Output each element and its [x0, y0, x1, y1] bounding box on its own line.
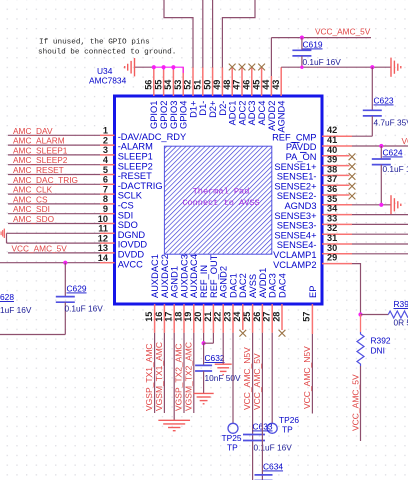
ground (left, DGND)	[1, 229, 4, 238]
pin 40 number	[327, 145, 337, 155]
svg-text:2: 2	[103, 135, 108, 145]
svg-text:EP: EP	[308, 286, 318, 298]
net label VCC_AMC_5V (pin 13)	[12, 243, 68, 253]
pin 16 label AUXDAC2	[160, 254, 170, 298]
svg-text:C629: C629	[67, 284, 87, 294]
value C633 0.1uF 16V	[254, 443, 293, 453]
pin 49 stub (top)	[221, 67, 223, 96]
svg-text:VGSP_TX2_AMC: VGSP_TX2_AMC	[174, 343, 184, 411]
pin 28 stub (bottom)	[281, 304, 283, 330]
svg-text:34: 34	[327, 204, 338, 214]
svg-text:55: 55	[153, 80, 163, 90]
label TP26 TP	[282, 425, 293, 435]
svg-text:SENSE3+: SENSE3+	[274, 211, 316, 221]
svg-text:-DACTRIG: -DACTRIG	[118, 181, 163, 191]
svg-text:38: 38	[327, 164, 337, 174]
ground (right, AGND3)	[391, 195, 401, 214]
pin 30 number	[327, 243, 337, 253]
svg-text:SENSE1+: SENSE1+	[274, 162, 316, 172]
svg-text:VCC_AMC_N5V: VCC_AMC_N5V	[302, 346, 312, 409]
svg-text:40: 40	[327, 145, 337, 155]
net label AMC_CS	[13, 194, 48, 204]
svg-text:24: 24	[232, 311, 242, 322]
svg-text:GPIO3: GPIO3	[169, 101, 179, 129]
net label VGSP_TX2_AMC	[174, 343, 184, 411]
pin 13 stub (left)	[100, 252, 115, 254]
svg-text:DAC4: DAC4	[277, 273, 287, 298]
wire GPIO ground bus (magenta)	[154, 67, 183, 73]
pin 18 number	[173, 312, 183, 322]
pin 17 stub (bottom)	[173, 304, 175, 333]
pin 9 stub (left)	[100, 213, 115, 215]
svg-text:32: 32	[327, 223, 337, 233]
svg-text:20: 20	[193, 312, 203, 322]
svg-text:1: 1	[103, 126, 108, 136]
svg-text:4: 4	[103, 155, 109, 165]
capacitor C619	[292, 38, 311, 68]
wire AVCC (pin 14)	[0, 262, 100, 264]
pin 31 number	[327, 233, 337, 243]
ground (bottom, AGND1)	[158, 420, 190, 430]
pin 21 label REF_OUT	[209, 254, 219, 298]
svg-text:VGSM_TX1_AMC: VGSM_TX1_AMC	[154, 342, 164, 411]
svg-text:D2-: D2-	[218, 101, 228, 116]
pin 20 label REF_IN	[199, 265, 209, 298]
pin 49 number	[212, 80, 222, 90]
pin 36 number	[327, 184, 337, 194]
no-connect X pin 37	[349, 183, 356, 190]
net label VCC_AMC_5V (top)	[315, 27, 371, 37]
wire to R393	[361, 314, 389, 316]
net label VGSM_TX2_AMC	[183, 342, 193, 411]
op-amp U34 chip body outline	[115, 96, 323, 304]
ground (AGND2)	[215, 364, 232, 374]
svg-text:0.1uF 16V: 0.1uF 16V	[65, 304, 104, 314]
junction AGND3 / C624	[379, 203, 383, 207]
wire AMC pin 4	[8, 164, 100, 166]
svg-text:TP26: TP26	[279, 415, 299, 425]
pin 44 label AVDD2	[267, 101, 277, 131]
pin 10 stub (left)	[100, 223, 115, 225]
pin 13 number	[98, 243, 108, 253]
svg-text:54: 54	[163, 79, 173, 90]
wire AUXDAC2 (pin 16)	[163, 333, 165, 413]
svg-text:VCC_AMC_5V: VCC_AMC_5V	[12, 243, 68, 253]
svg-text:3: 3	[103, 145, 108, 155]
svg-text:39: 39	[327, 155, 337, 165]
pin 4 label SLEEP2	[118, 161, 153, 171]
svg-text:0.1uF 16V: 0.1uF 16V	[254, 443, 293, 453]
junction GPIO2	[162, 65, 166, 69]
junction C619 bottom	[300, 66, 303, 69]
pin 7 stub (left)	[100, 193, 115, 195]
wire D2+ (pin 50)	[212, 0, 214, 68]
pin 43 label AGND4	[277, 101, 287, 133]
svg-text:53: 53	[173, 80, 183, 90]
pin 32 label SENSE4+	[274, 230, 316, 240]
svg-text:7: 7	[103, 184, 108, 194]
svg-text:30: 30	[327, 243, 337, 253]
wire AUXDAC3 (pin 18)	[183, 333, 185, 413]
pin 51 number	[193, 80, 203, 90]
label R393 (clipped)	[394, 299, 408, 309]
svg-text:DVDD: DVDD	[118, 250, 145, 260]
svg-text:C634: C634	[263, 462, 283, 472]
pin 42 stub (right)	[322, 135, 352, 137]
thermal pad hatched region	[164, 146, 271, 254]
svg-text:AGND2: AGND2	[219, 266, 229, 298]
pin 28 label DAC4	[277, 273, 287, 298]
pin 33 number	[327, 213, 337, 223]
pin 8 number	[103, 194, 108, 204]
pin 39 label SENSE1+	[274, 162, 316, 172]
thermal pad text	[182, 187, 259, 208]
net label AMC_ALARM	[13, 136, 65, 146]
wire C629 bottom to C628	[0, 334, 65, 336]
svg-text:51: 51	[193, 80, 203, 90]
svg-text:VGSP_TX1_AMC: VGSP_TX1_AMC	[144, 343, 154, 411]
svg-text:AMC_RESET: AMC_RESET	[13, 165, 64, 175]
wire REF_OUT (pin 21) jog	[204, 333, 214, 343]
no-connect X pin 28	[279, 330, 286, 337]
capacitor C633	[243, 435, 265, 441]
svg-text:23: 23	[222, 312, 232, 322]
wire DVDD (pin 13)	[8, 252, 100, 254]
pin 28 number	[271, 312, 281, 322]
label C624	[383, 148, 403, 158]
wire AMC pin 2	[8, 144, 100, 146]
pin 27 stub (bottom)	[271, 304, 273, 333]
svg-text:AUXDAC1: AUXDAC1	[150, 254, 160, 298]
junction C624 top	[379, 144, 383, 148]
pin 5 label -RESET	[118, 171, 152, 181]
pin 37 number	[327, 174, 337, 184]
pin 11 label DGND	[118, 230, 146, 240]
svg-text:45: 45	[251, 80, 261, 90]
pin 23 stub (bottom)	[232, 304, 234, 333]
value R392 DNI	[371, 346, 385, 356]
svg-text:DNI: DNI	[371, 346, 385, 356]
pin 9 label SDI	[118, 210, 134, 220]
no-connect X pin 46	[248, 64, 255, 71]
net label VCC_AMC_5V (PAVDD, clipped)	[402, 136, 408, 146]
svg-text:IOVDD: IOVDD	[118, 240, 148, 250]
pin 16 number	[154, 312, 164, 322]
testpoint TP25	[228, 423, 238, 433]
pin 1 label -DAV/ADC_RDY	[118, 132, 187, 142]
pin 38 label SENSE1-	[277, 172, 317, 182]
pin 46 label ADC3	[247, 101, 257, 126]
wire AMC pin 8	[8, 203, 100, 205]
svg-text:57: 57	[302, 312, 312, 322]
svg-text:36: 36	[327, 184, 337, 194]
pin 2 stub (left)	[100, 144, 115, 146]
svg-text:-ALARM: -ALARM	[118, 142, 153, 152]
pin 23 label DAC1	[228, 273, 238, 298]
svg-text:12: 12	[98, 233, 108, 243]
wire DAC3 (pin 27)	[271, 333, 273, 424]
pin 50 stub (top)	[212, 67, 214, 96]
pin 38 number	[327, 164, 337, 174]
pin 18 label AUXDAC3	[179, 254, 189, 298]
pin 1 stub (left)	[100, 134, 115, 136]
capacitor C629	[56, 263, 75, 335]
pin 55 stub (top)	[163, 67, 165, 96]
pin 26 label AVDD1	[258, 268, 268, 298]
pin 7 number	[103, 184, 108, 194]
pin 25 label AVSS	[248, 274, 258, 298]
pin 46 number	[242, 80, 252, 90]
pin 52 number	[183, 80, 193, 90]
label C619	[303, 40, 323, 50]
label C633	[253, 422, 273, 432]
resistor R393 (clipped)	[388, 311, 408, 318]
svg-text:AUXDAC2: AUXDAC2	[160, 254, 170, 298]
svg-text:41: 41	[327, 135, 337, 145]
pin 35 number	[327, 194, 337, 204]
wire C623 to REF_CMP	[352, 135, 372, 137]
pin 35 stub (right)	[322, 204, 352, 206]
pin 36 label SENSE2-	[277, 191, 317, 201]
svg-text:1uF 16V: 1uF 16V	[0, 305, 32, 315]
pin 24 stub (bottom)	[242, 304, 244, 330]
net label AMC_SLEEP1	[13, 145, 68, 155]
pin 21 stub (bottom)	[212, 304, 214, 333]
svg-text:AGND4: AGND4	[277, 101, 287, 133]
capacitor C623	[363, 67, 382, 136]
pin 54 stub (top)	[172, 67, 174, 96]
junction REF_IN / REF_OUT	[202, 341, 206, 345]
pin 32 number	[327, 223, 337, 233]
wire AGND4 (pin 43) to ground	[281, 66, 391, 68]
svg-text:REF_OUT: REF_OUT	[209, 254, 219, 298]
pin 48 stub (top)	[231, 67, 233, 96]
pin 45 label ADC4	[257, 101, 267, 126]
note text line 2	[38, 49, 176, 57]
svg-text:DGND: DGND	[118, 230, 146, 240]
svg-text:19: 19	[183, 312, 193, 322]
no-connect X pin 40	[349, 153, 356, 160]
junction GPIO1	[152, 65, 156, 69]
wire AVDD2 (pin 44) to VCC	[270, 38, 272, 76]
label C623	[374, 96, 394, 106]
pin 14 label AVCC	[118, 259, 143, 269]
net label VCC_AMC_5V (R392)	[350, 374, 360, 431]
net label VCC_AMC_5V (AVDD1)	[252, 353, 262, 410]
svg-text:AGND1: AGND1	[170, 266, 180, 298]
pin 2 label -ALARM	[118, 142, 153, 152]
pin 5 stub (left)	[100, 174, 115, 176]
svg-text:25: 25	[242, 312, 252, 322]
svg-text:AMC_CS: AMC_CS	[13, 194, 48, 204]
svg-text:11: 11	[98, 224, 108, 234]
pin 31 label SENSE4-	[277, 240, 317, 250]
svg-text:AMC_DAC_TRIG: AMC_DAC_TRIG	[13, 175, 78, 185]
svg-text:4.7uF 35V: 4.7uF 35V	[374, 118, 408, 128]
wire D2- (pin 49)	[222, 0, 255, 68]
wire SENSE3- (pin 33)	[352, 223, 408, 225]
svg-text:C624: C624	[383, 148, 403, 158]
svg-text:48: 48	[222, 80, 232, 90]
svg-text:21: 21	[203, 312, 213, 322]
svg-text:AVCC: AVCC	[118, 259, 143, 269]
svg-text:AMC_ALARM: AMC_ALARM	[13, 136, 65, 146]
svg-text:15: 15	[144, 312, 154, 322]
svg-text:SDI: SDI	[118, 210, 134, 220]
net label VGSM_TX1_AMC	[154, 342, 164, 411]
svg-text:SENSE1-: SENSE1-	[277, 172, 317, 182]
pin 54 label GPIO3	[169, 101, 179, 129]
pin 45 number	[251, 80, 261, 90]
pin 40 stub (right)	[322, 155, 350, 157]
net label AMC_SDO	[13, 214, 55, 224]
svg-text:D1+: D1+	[188, 101, 198, 118]
svg-text:should be connected to ground.: should be connected to ground.	[38, 49, 176, 57]
pin 47 label ADC2	[237, 101, 247, 126]
pin 17 label AGND1	[170, 266, 180, 298]
pin 22 label AGND2	[219, 266, 229, 298]
pin 19 number	[183, 312, 193, 322]
svg-text:628: 628	[0, 292, 14, 302]
pin 34 stub (right)	[322, 214, 352, 216]
svg-text:AVDD2: AVDD2	[267, 101, 277, 131]
svg-text:47: 47	[232, 80, 242, 90]
svg-text:-DAV/ADC_RDY: -DAV/ADC_RDY	[118, 132, 187, 142]
svg-text:D2+: D2+	[208, 101, 218, 118]
svg-text:R392: R392	[371, 336, 391, 346]
pin 51 label D1-	[198, 101, 208, 116]
svg-text:C623: C623	[374, 96, 394, 106]
U34 reference designator	[97, 66, 113, 76]
svg-text:VGSM_TX2_AMC: VGSM_TX2_AMC	[183, 342, 193, 411]
wire AMC pin 5	[8, 174, 100, 176]
ground (top right)	[391, 58, 401, 77]
pin 56 stub (top)	[153, 67, 155, 96]
value C632 10nF 50V	[205, 373, 241, 383]
svg-text:SLEEP2: SLEEP2	[118, 161, 153, 171]
pin 37 label SENSE2+	[274, 181, 316, 191]
pin 29 stub (right)	[322, 263, 352, 265]
ground (C632)	[194, 393, 214, 403]
pin 32 stub (right)	[322, 233, 352, 235]
svg-text:49: 49	[212, 80, 222, 90]
no-connect X pin 47	[239, 64, 246, 71]
svg-text:17: 17	[164, 312, 174, 322]
pin 42 label REF_CMP	[272, 132, 316, 142]
pin 15 label AUXDAC1	[150, 254, 160, 298]
pin 31 stub (right)	[322, 243, 352, 245]
label C634	[263, 462, 283, 472]
pin 13 label DVDD	[118, 250, 145, 260]
wire DGND (pin 11)	[7, 232, 101, 234]
pin 6 label -DACTRIG	[118, 181, 163, 191]
pin 5 number	[103, 165, 108, 175]
pin 14 stub (left)	[100, 262, 115, 264]
pin 27 number	[262, 312, 272, 322]
svg-text:SLEEP1: SLEEP1	[118, 152, 153, 162]
pin 8 label -CS	[118, 201, 134, 211]
no-connect X pin 45	[258, 64, 265, 71]
pin 12 stub (left)	[100, 242, 115, 244]
net label AMC_SDI	[13, 204, 50, 214]
label TP26	[279, 415, 299, 425]
pin 18 stub (bottom)	[183, 304, 185, 333]
pin 33 label SENSE3-	[277, 221, 317, 231]
svg-text:TP: TP	[282, 425, 293, 435]
pin 40 label PA_ON	[286, 152, 317, 162]
pin 9 number	[103, 204, 108, 214]
svg-text:AMC_CLK: AMC_CLK	[13, 185, 53, 195]
label TP25	[222, 433, 242, 443]
U34 part number AMC7834	[89, 76, 127, 86]
pin 4 number	[103, 155, 109, 165]
pin 7 label SCLK	[118, 191, 143, 201]
pin 29 label VCLAMP2	[273, 260, 316, 270]
wire REF_IN (pin 20)	[203, 333, 205, 343]
wire SENSE3+ (pin 34)	[352, 214, 408, 216]
svg-text:56: 56	[144, 80, 154, 90]
pin 56 number	[144, 80, 154, 90]
svg-text:AUXDAC4: AUXDAC4	[189, 254, 199, 298]
pin 56 label GPIO1	[149, 101, 159, 129]
label C628 (clipped)	[0, 292, 14, 302]
svg-text:TP: TP	[227, 443, 238, 453]
wire ground to GPIO1 (maroon)	[135, 66, 154, 68]
wire D1+ (pin 52)	[164, 0, 193, 68]
svg-text:AMC_SLEEP1: AMC_SLEEP1	[13, 145, 68, 155]
svg-text:SENSE2+: SENSE2+	[274, 181, 316, 191]
wire AVSS (pin 25)	[252, 333, 254, 480]
svg-text:AMC_SLEEP2: AMC_SLEEP2	[13, 155, 68, 165]
pin EP label	[308, 286, 318, 298]
wire VCLAMP2 (pin 29)	[352, 264, 361, 315]
wire AUXDAC1 (pin 15)	[154, 333, 156, 413]
wire AUXDAC4 (pin 19)	[193, 333, 195, 413]
overbar PAVDD	[292, 142, 300, 144]
pin 35 label AGND3	[284, 201, 316, 211]
pin 29 number	[327, 253, 337, 263]
label C632	[205, 353, 225, 363]
svg-text:0R 5%: 0R 5%	[394, 318, 408, 328]
svg-text:PAVDD: PAVDD	[286, 142, 317, 152]
net label AMC_RESET	[13, 165, 64, 175]
svg-text:ADC1: ADC1	[228, 101, 238, 126]
wire D1- (pin 51)	[202, 0, 204, 68]
net label VGSP_TX1_AMC	[144, 343, 154, 411]
capacitor C634 (clipped)	[255, 475, 273, 481]
wire EP to VCC_AMC_N5V	[311, 334, 313, 414]
wire SENSE4- (pin 31)	[352, 243, 408, 245]
pin 4 stub (left)	[100, 164, 115, 166]
svg-text:SENSE2-: SENSE2-	[277, 191, 317, 201]
svg-text:SCLK: SCLK	[118, 191, 143, 201]
svg-text:GPIO1: GPIO1	[149, 101, 159, 129]
pin 55 label GPIO2	[159, 101, 169, 129]
svg-text:31: 31	[327, 233, 337, 243]
pin 21 number	[203, 312, 213, 322]
svg-text:5: 5	[103, 165, 108, 175]
svg-text:ADC2: ADC2	[237, 101, 247, 126]
svg-text:ADC4: ADC4	[257, 101, 267, 126]
svg-text:TP25: TP25	[222, 433, 242, 443]
pin 23 number	[222, 312, 232, 322]
pin 46 stub (top)	[251, 67, 253, 96]
svg-text:SDO: SDO	[118, 220, 138, 230]
capacitor C632	[195, 343, 212, 393]
pin 16 stub (bottom)	[163, 304, 165, 333]
ground for GPIO pins	[125, 58, 135, 76]
no-connect X pin 38	[349, 173, 356, 180]
